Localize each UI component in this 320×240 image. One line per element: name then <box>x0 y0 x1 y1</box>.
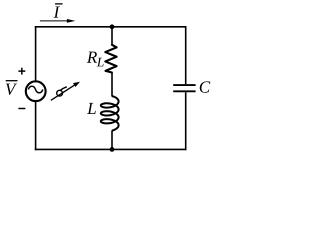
minus sign <box>18 108 25 110</box>
current arrow I <box>40 19 76 23</box>
label I phasor <box>54 4 63 18</box>
variable frequency arrow <box>51 82 80 101</box>
wire left lower <box>35 101 37 150</box>
node top junction <box>110 24 115 29</box>
label V phasor <box>6 81 18 95</box>
plus sign <box>18 68 25 75</box>
wire middle upper <box>111 27 113 45</box>
wire top <box>35 26 187 28</box>
node bottom junction <box>110 147 115 152</box>
resistor RL <box>105 45 116 73</box>
wire middle mid <box>111 73 113 97</box>
source V1 AC circle <box>26 81 46 101</box>
wire right lower <box>185 92 187 150</box>
label C <box>200 81 211 92</box>
wire left upper <box>35 26 37 81</box>
label RL <box>87 52 104 67</box>
capacitor C <box>173 85 195 91</box>
wire right upper <box>185 26 187 84</box>
wire middle lower <box>111 130 113 149</box>
inductor L <box>101 96 119 131</box>
wire bottom <box>35 148 187 150</box>
label L <box>87 103 96 114</box>
source sine wave <box>28 86 43 93</box>
